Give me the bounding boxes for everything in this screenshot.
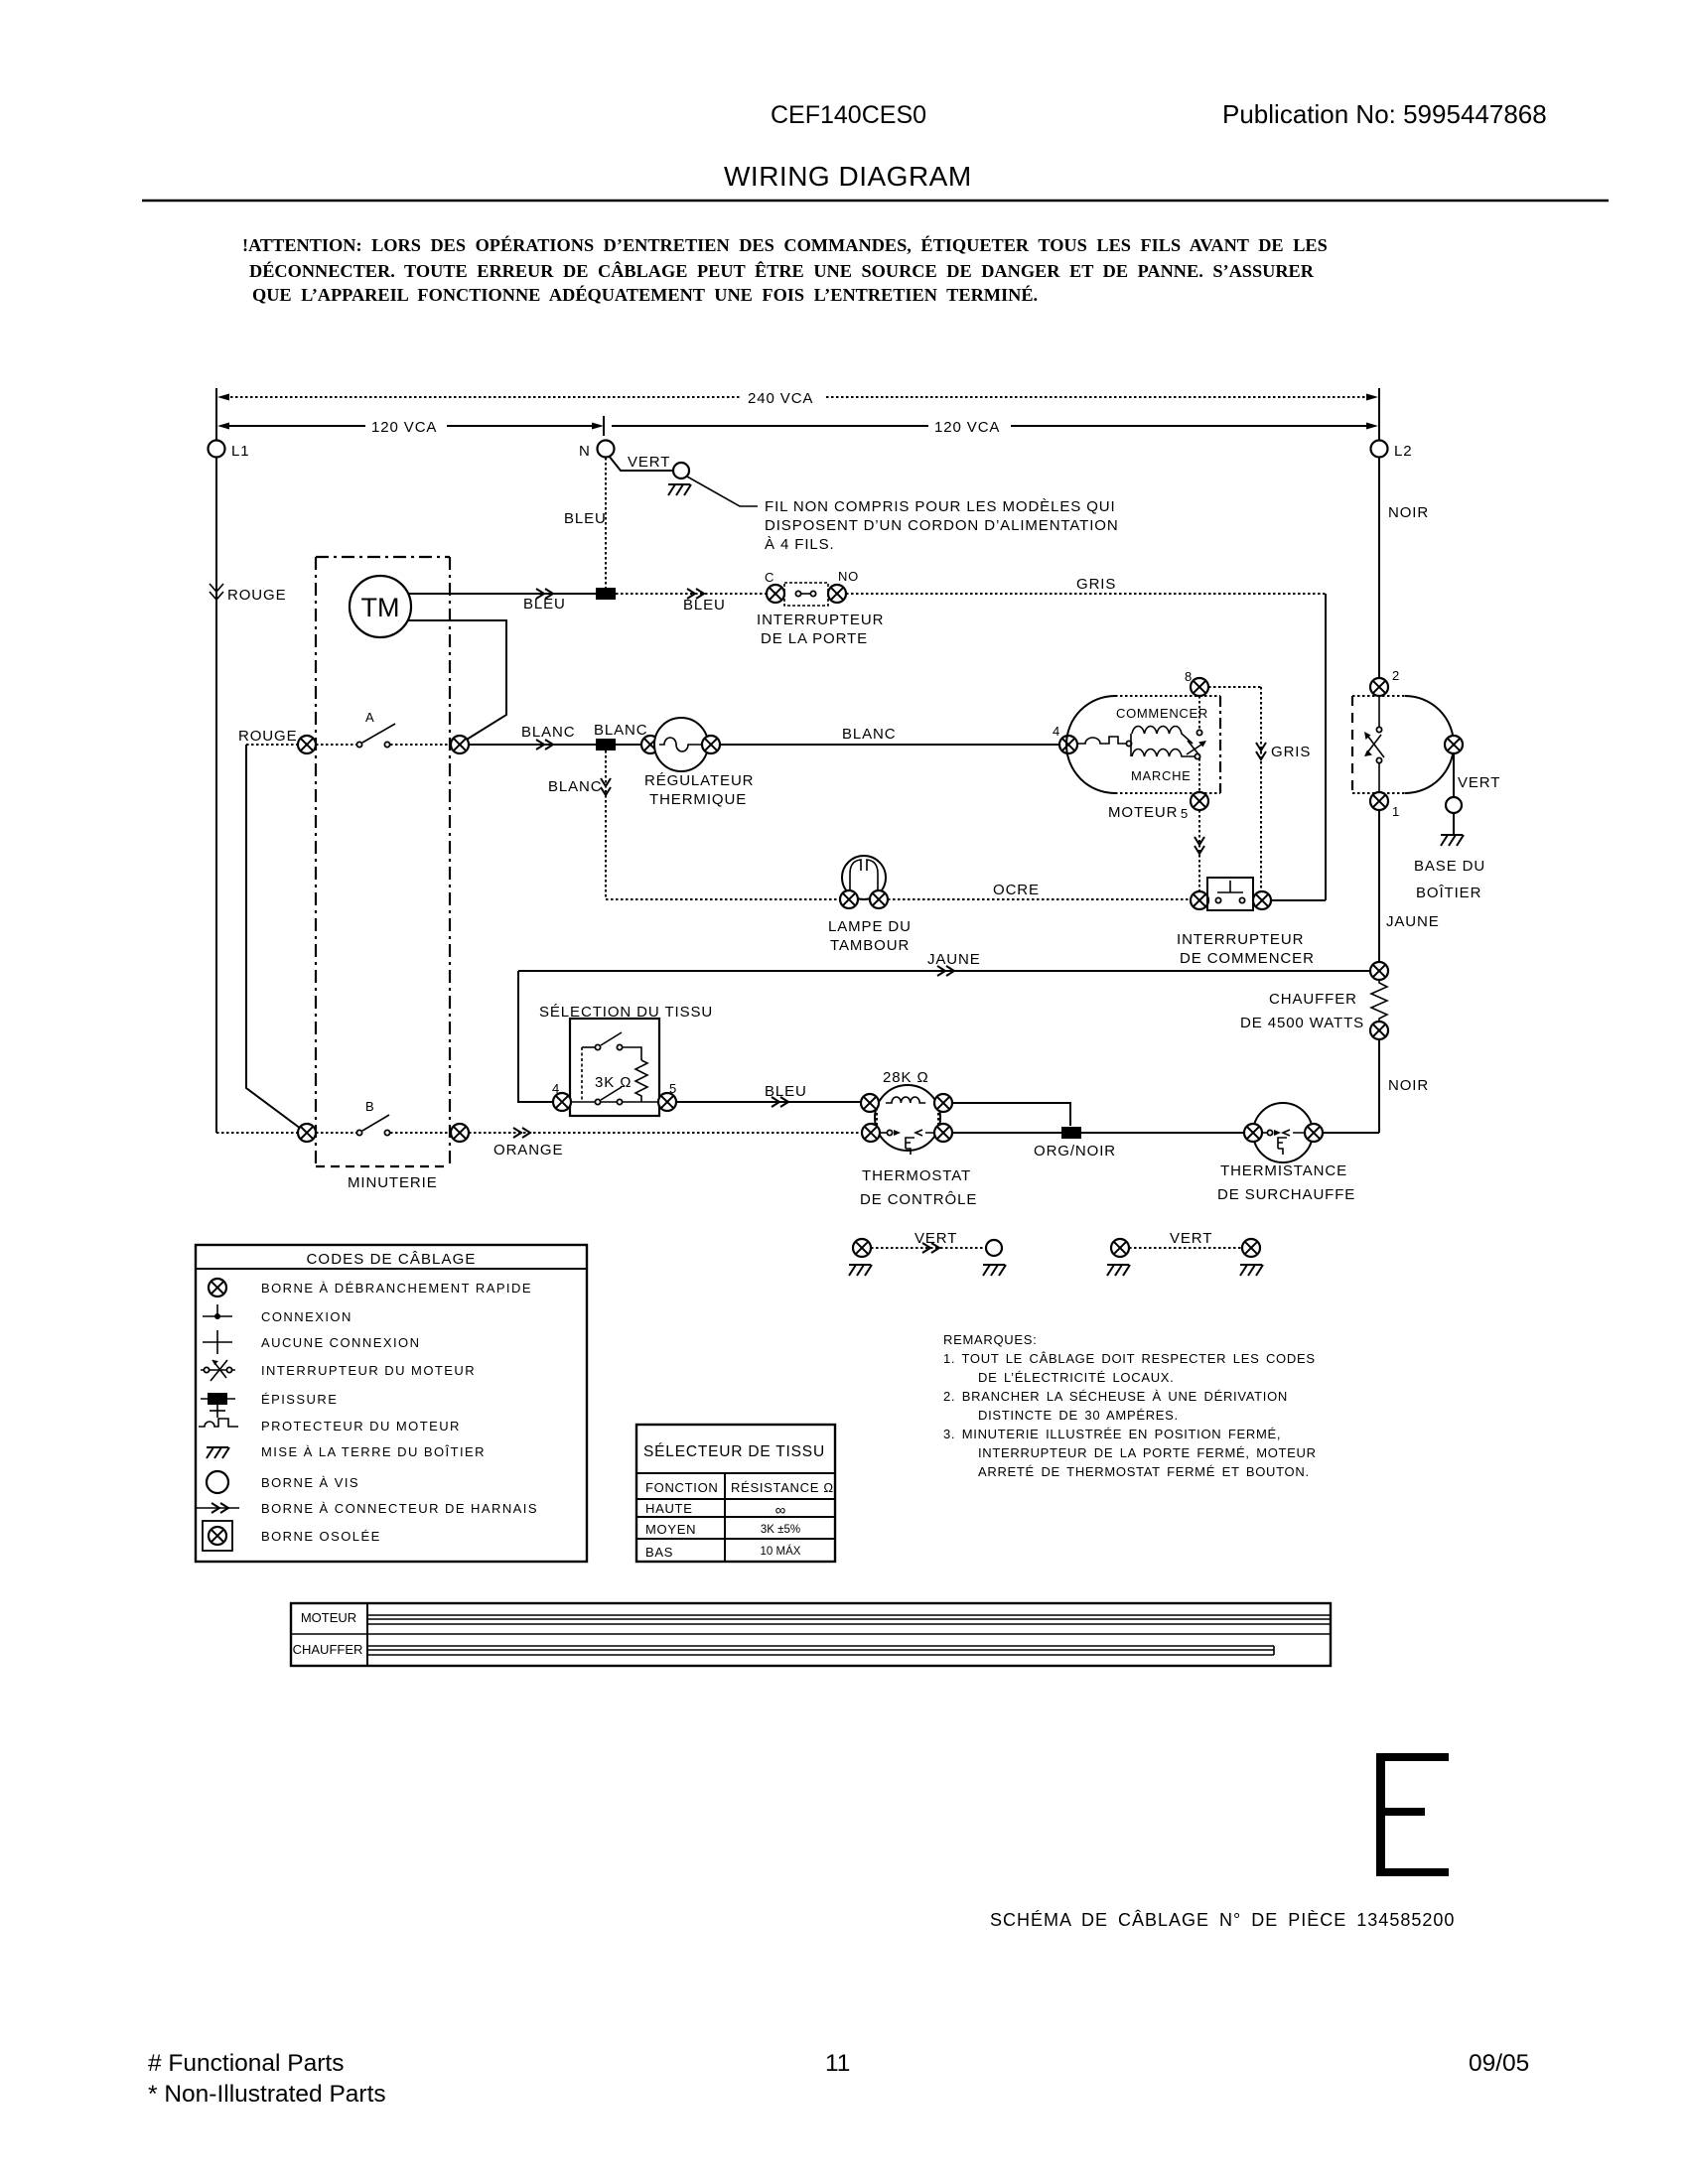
VERT lead to chassis xyxy=(1446,753,1500,835)
heater element CHAUFFER xyxy=(1240,980,1387,1031)
wire terminal 5 down to start switch xyxy=(1195,810,1204,891)
svg-text:BLEU: BLEU xyxy=(564,510,607,527)
svg-text:QUE L’APPAREIL FONCTIONNE ADÉQ: QUE L’APPAREIL FONCTIONNE ADÉQUATEMENT U… xyxy=(252,284,1038,305)
wire ORANGE to thermostat xyxy=(469,1128,862,1159)
svg-text:BASE DU: BASE DU xyxy=(1414,858,1485,875)
splice BLEU node xyxy=(596,588,616,600)
regulateur thermique xyxy=(616,718,754,808)
wire thermostat bottom right to splice xyxy=(952,1132,1061,1134)
wire BLEU selector to thermostat xyxy=(676,1083,861,1107)
svg-text:JAUNE: JAUNE xyxy=(927,951,981,968)
svg-text:TAMBOUR: TAMBOUR xyxy=(830,937,910,954)
svg-text:SÉLECTEUR DE TISSU: SÉLECTEUR DE TISSU xyxy=(643,1443,825,1460)
svg-text:OCRE: OCRE xyxy=(993,882,1040,898)
wire start switch to GRIS vertical xyxy=(1271,899,1326,901)
wire BLANC regulator to motor xyxy=(720,726,1059,745)
svg-text:BLANC: BLANC xyxy=(521,724,576,741)
title rule xyxy=(142,200,1609,203)
svg-text:BOÎTIER: BOÎTIER xyxy=(1416,885,1481,901)
svg-text:DISTINCTE DE 30 AMPÉRES.: DISTINCTE DE 30 AMPÉRES. xyxy=(978,1408,1179,1423)
terminal A left xyxy=(298,736,316,753)
svg-text:4: 4 xyxy=(552,1081,560,1096)
motor terminal 4 xyxy=(1053,724,1077,753)
ground group 2 left terminal xyxy=(1107,1239,1130,1276)
ground group 1 screw terminal xyxy=(983,1240,1006,1276)
svg-text:DE 4500 WATTS: DE 4500 WATTS xyxy=(1240,1015,1364,1031)
svg-text:!ATTENTION: LORS DES OPÉRATION: !ATTENTION: LORS DES OPÉRATIONS D’ENTRET… xyxy=(242,234,1328,255)
svg-text:DISPOSENT D’UN CORDON D’ALI: DISPOSENT D’UN CORDON D’ALIMENTATION xyxy=(765,517,1119,534)
svg-text:* Non-Illustrated Parts: * Non-Illustrated Parts xyxy=(148,2081,386,2108)
svg-text:GRIS: GRIS xyxy=(1076,576,1116,593)
svg-text:THERMOSTAT: THERMOSTAT xyxy=(862,1167,971,1184)
svg-text:ARRETÉ DE THERMOSTAT FERMÉ: ARRETÉ DE THERMOSTAT FERMÉ ET BOUTON. xyxy=(978,1464,1310,1479)
wire splice to thermistance xyxy=(1081,1132,1244,1134)
svg-text:DÉCONNECTER. TOUTE ERREUR DE C: DÉCONNECTER. TOUTE ERREUR DE CÂBLAGE PEU… xyxy=(249,260,1315,281)
svg-text:C: C xyxy=(765,570,774,585)
wire L1 vertical xyxy=(215,388,217,440)
svg-text:CEF140CES0: CEF140CES0 xyxy=(771,101,926,129)
wire thermostat top right to splice xyxy=(952,1103,1070,1126)
switch A xyxy=(316,710,451,748)
svg-text:A: A xyxy=(365,710,374,725)
svg-text:B: B xyxy=(365,1099,374,1114)
svg-text:MINUTERIE: MINUTERIE xyxy=(348,1174,438,1191)
svg-text:11: 11 xyxy=(825,2050,850,2077)
wire splice to door switch xyxy=(616,589,767,614)
terminal L2 xyxy=(1371,441,1413,461)
svg-text:BORNE À CONNECTEUR DE HARN: BORNE À CONNECTEUR DE HARNAIS xyxy=(261,1501,538,1516)
wire JAUNE from terminal 1 down xyxy=(1379,810,1440,962)
switch B in timer xyxy=(298,1099,469,1142)
main switch terminal 2 xyxy=(1370,668,1400,696)
120 VCA dimension line left xyxy=(217,416,604,436)
svg-text:Publication No: 5995447868: Publication No: 5995447868 xyxy=(1222,99,1547,129)
screw terminal on VERT xyxy=(673,463,689,478)
ground group 2 VERT wire xyxy=(1129,1230,1242,1248)
svg-text:120 VCA: 120 VCA xyxy=(371,419,437,436)
thermostat de controle xyxy=(860,1069,977,1208)
wire GRIS from terminal 8 xyxy=(1208,687,1311,891)
legend connexion xyxy=(203,1304,352,1324)
svg-text:# Functional Parts: # Functional Parts xyxy=(148,2050,344,2077)
svg-text:28K Ω: 28K Ω xyxy=(883,1069,929,1086)
svg-text:DE LA PORTE: DE LA PORTE xyxy=(761,630,868,647)
svg-text:JAUNE: JAUNE xyxy=(1386,913,1440,930)
svg-text:MOTEUR: MOTEUR xyxy=(301,1610,356,1625)
main switch terminal 1 xyxy=(1370,792,1400,819)
svg-text:SCHÉMA DE CÂBLAGE N° DE P: SCHÉMA DE CÂBLAGE N° DE PIÈCE 134585200 xyxy=(990,1910,1455,1930)
svg-text:2: 2 xyxy=(1392,668,1400,683)
wire ROUGE corner to terminal A xyxy=(238,728,298,745)
legend borne a vis xyxy=(207,1471,359,1493)
wire JAUNE left drop to selector xyxy=(518,971,554,1102)
svg-text:CODES DE CÂBLAGE: CODES DE CÂBLAGE xyxy=(307,1251,477,1268)
svg-text:5: 5 xyxy=(669,1081,677,1096)
legend quick disconnect xyxy=(209,1279,532,1297)
door switch INTERRUPTEUR DE LA PORTE xyxy=(757,569,884,647)
120 VCA dimension line right xyxy=(612,419,1378,436)
svg-text:RÉGULATEUR: RÉGULATEUR xyxy=(644,772,754,789)
wire TM to splice BLEU xyxy=(408,589,596,613)
svg-text:N: N xyxy=(579,443,591,460)
svg-text:REMARQUES:: REMARQUES: xyxy=(943,1332,1037,1347)
terminal A right xyxy=(451,736,469,753)
svg-text:BAS: BAS xyxy=(645,1545,673,1560)
svg-text:CHAUFFER: CHAUFFER xyxy=(1269,991,1357,1008)
ground group 1 VERT wire xyxy=(871,1230,986,1253)
svg-text:ROUGE: ROUGE xyxy=(238,728,298,745)
motor start winding COMMENCER xyxy=(1116,706,1208,744)
legend borne a connecteur de harnais xyxy=(197,1501,538,1516)
wire lamp branch horizontal xyxy=(606,898,840,900)
wire JAUNE horizontal xyxy=(518,951,1370,976)
main switch blade xyxy=(1364,696,1384,792)
svg-text:BLEU: BLEU xyxy=(683,597,726,614)
svg-text:L1: L1 xyxy=(231,443,250,460)
wire L1 down to row B xyxy=(216,458,298,1133)
svg-text:ORANGE: ORANGE xyxy=(493,1142,563,1159)
legend epissure xyxy=(201,1392,338,1418)
svg-text:240 VCA: 240 VCA xyxy=(748,390,813,407)
selector terminal 5 xyxy=(658,1081,677,1111)
svg-text:FONCTION: FONCTION xyxy=(645,1480,718,1495)
svg-text:NOIR: NOIR xyxy=(1388,1077,1429,1094)
svg-text:GRIS: GRIS xyxy=(1271,744,1311,760)
svg-text:3. MINUTERIE ILLUSTRÉE EN: 3. MINUTERIE ILLUSTRÉE EN POSITION FERMÉ… xyxy=(943,1427,1281,1441)
selector terminal 4 xyxy=(552,1081,571,1111)
warning paragraph xyxy=(242,234,1328,305)
callout leader line xyxy=(687,477,758,506)
wire OCRE lamp to start switch xyxy=(888,882,1191,899)
svg-text:BLANC: BLANC xyxy=(842,726,897,743)
svg-text:4: 4 xyxy=(1053,724,1060,739)
svg-text:3K ±5%: 3K ±5% xyxy=(761,1524,800,1536)
svg-text:09/05: 09/05 xyxy=(1469,2050,1529,2077)
svg-text:MARCHE: MARCHE xyxy=(1131,768,1192,783)
ground base du boitier xyxy=(1414,835,1485,901)
svg-text:VERT: VERT xyxy=(914,1230,957,1247)
svg-text:RÉSISTANCE Ω: RÉSISTANCE Ω xyxy=(731,1480,834,1495)
svg-text:MISE À LA TERRE DU BOÎTIE: MISE À LA TERRE DU BOÎTIER xyxy=(261,1444,486,1459)
motor MOTEUR body xyxy=(1066,696,1220,821)
wire ROUGE vertical down xyxy=(246,745,301,1129)
svg-text:ROUGE: ROUGE xyxy=(227,587,287,604)
heater bottom terminal xyxy=(1370,1022,1388,1039)
timer motor TM xyxy=(350,576,411,637)
svg-text:THERMISTANCE: THERMISTANCE xyxy=(1220,1162,1347,1179)
wire GRIS vertical down to start switch xyxy=(1325,594,1327,900)
svg-text:CONNEXION: CONNEXION xyxy=(261,1309,352,1324)
svg-text:ÉPISSURE: ÉPISSURE xyxy=(261,1392,338,1407)
svg-text:DE COMMENCER: DE COMMENCER xyxy=(1180,950,1315,967)
lampe du tambour xyxy=(828,856,912,954)
timing chart moteur bars xyxy=(368,1615,1331,1624)
svg-text:8: 8 xyxy=(1185,669,1193,684)
svg-text:LAMPE DU: LAMPE DU xyxy=(828,918,912,935)
svg-text:COMMENCER: COMMENCER xyxy=(1116,706,1208,721)
legend mise a la terre xyxy=(207,1444,486,1459)
timing chart chauffer bars xyxy=(368,1646,1274,1655)
terminal L1 xyxy=(209,441,250,461)
ground group 2 right terminal xyxy=(1240,1239,1263,1276)
svg-text:DE CONTRÔLE: DE CONTRÔLE xyxy=(860,1191,977,1208)
fabric selector box xyxy=(570,1019,659,1116)
svg-text:MOTEUR: MOTEUR xyxy=(1108,804,1178,821)
legend box CODES DE CABLAGE xyxy=(196,1245,587,1562)
terminal N xyxy=(579,441,615,461)
svg-text:AUCUNE CONNEXION: AUCUNE CONNEXION xyxy=(261,1335,420,1350)
svg-text:VERT: VERT xyxy=(1170,1230,1212,1247)
wire BLEU N down xyxy=(564,458,607,588)
revision letter E xyxy=(1376,1753,1449,1876)
svg-text:BLANC: BLANC xyxy=(594,722,648,739)
motor run winding MARCHE xyxy=(1131,750,1195,784)
svg-text:1. TOUT LE CÂBLAGE DOIT R: 1. TOUT LE CÂBLAGE DOIT RESPECTER LES CO… xyxy=(943,1351,1316,1366)
svg-text:VERT: VERT xyxy=(1458,774,1500,791)
motor terminal 5 xyxy=(1181,792,1208,821)
svg-text:INTERRUPTEUR DE LA PORTE F: INTERRUPTEUR DE LA PORTE FERMÉ, MOTEUR xyxy=(978,1445,1317,1460)
svg-text:TM: TM xyxy=(361,593,400,622)
svg-text:ORG/NOIR: ORG/NOIR xyxy=(1034,1143,1116,1160)
ROUGE wire marker on L1 xyxy=(210,584,287,604)
svg-text:BORNE OSOLÉE: BORNE OSOLÉE xyxy=(261,1529,381,1544)
note text 4-wire models xyxy=(765,498,1119,553)
ground below VERT screw xyxy=(668,484,691,495)
svg-text:FIL NON COMPRIS POUR LES: FIL NON COMPRIS POUR LES MODÈLES QUI xyxy=(765,498,1116,515)
svg-text:120 VCA: 120 VCA xyxy=(934,419,1000,436)
thermistance de surchauffe xyxy=(1217,1103,1355,1203)
motor winding bracket xyxy=(1126,734,1131,756)
svg-text:BORNE À VIS: BORNE À VIS xyxy=(261,1475,359,1490)
svg-text:INTERRUPTEUR: INTERRUPTEUR xyxy=(757,612,884,628)
legend interrupteur du moteur xyxy=(201,1360,476,1381)
svg-text:INTERRUPTEUR DU MOTEUR: INTERRUPTEUR DU MOTEUR xyxy=(261,1363,476,1378)
svg-text:DE SURCHAUFFE: DE SURCHAUFFE xyxy=(1217,1186,1355,1203)
selector table SELECTEUR DE TISSU xyxy=(636,1425,835,1562)
timer dashed box MINUTERIE xyxy=(316,557,450,1191)
selector internal circuit xyxy=(571,1032,658,1105)
svg-text:DE L’ÉLECTRICITÉ LOCAUX.: DE L’ÉLECTRICITÉ LOCAUX. xyxy=(978,1370,1174,1385)
main switch body xyxy=(1352,696,1454,793)
heater top terminal xyxy=(1370,962,1388,980)
svg-text:NO: NO xyxy=(838,569,859,584)
svg-text:NOIR: NOIR xyxy=(1388,504,1429,521)
wire NOIR heater to thermistor xyxy=(1323,1039,1429,1133)
svg-text:MOYEN: MOYEN xyxy=(645,1522,696,1537)
motor centrifugal switch xyxy=(1187,730,1206,758)
motor run lead down to 5 xyxy=(1198,758,1200,792)
svg-text:2. BRANCHER LA SÉCHEUSE À: 2. BRANCHER LA SÉCHEUSE À UNE DÉRIVATION xyxy=(943,1389,1288,1404)
wire GRIS door switch to right xyxy=(846,576,1326,594)
240 VCA dimension line xyxy=(217,390,1378,407)
svg-text:HAUTE: HAUTE xyxy=(645,1501,693,1516)
svg-text:THERMIQUE: THERMIQUE xyxy=(649,791,747,808)
legend borne osolee xyxy=(203,1521,381,1551)
motor protector on lead xyxy=(1077,737,1129,744)
wire BLANC splice down to lamp xyxy=(548,751,611,899)
wire TM lower output to switch A xyxy=(408,620,506,743)
svg-text:5: 5 xyxy=(1181,806,1189,821)
timing chart box xyxy=(291,1603,1331,1666)
svg-text:CHAUFFER: CHAUFFER xyxy=(293,1642,363,1657)
main switch right terminal xyxy=(1445,736,1463,753)
splice ORG/NOIR xyxy=(1034,1127,1116,1160)
svg-text:BLANC: BLANC xyxy=(548,778,603,795)
splice BLANC node xyxy=(594,722,648,751)
svg-text:INTERRUPTEUR: INTERRUPTEUR xyxy=(1177,931,1304,948)
svg-text:WIRING DIAGRAM: WIRING DIAGRAM xyxy=(724,161,972,192)
remarques notes xyxy=(943,1332,1317,1479)
svg-text:10 MÁX: 10 MÁX xyxy=(761,1545,801,1558)
svg-text:1: 1 xyxy=(1392,804,1400,819)
wire L2 top stub xyxy=(1378,388,1380,440)
wire BLANC A to splice xyxy=(469,724,596,750)
svg-text:BLEU: BLEU xyxy=(765,1083,807,1100)
start switch INTERRUPTEUR DE COMMENCER xyxy=(1177,878,1315,967)
wire VERT from N xyxy=(609,454,673,471)
ground group 1 left terminal xyxy=(849,1239,872,1276)
svg-text:L2: L2 xyxy=(1394,443,1413,460)
svg-text:BORNE À DÉBRANCHEMENT RAPID: BORNE À DÉBRANCHEMENT RAPIDE xyxy=(261,1281,532,1296)
svg-text:PROTECTEUR DU MOTEUR: PROTECTEUR DU MOTEUR xyxy=(261,1419,461,1433)
legend protecteur du moteur xyxy=(199,1419,461,1433)
legend aucune connexion xyxy=(203,1330,420,1354)
svg-text:À 4 FILS.: À 4 FILS. xyxy=(765,536,835,553)
svg-text:∞: ∞ xyxy=(775,1502,786,1519)
svg-text:BLEU: BLEU xyxy=(523,596,566,613)
wire NOIR L2 down xyxy=(1379,458,1429,678)
svg-text:3K Ω: 3K Ω xyxy=(595,1074,632,1091)
svg-text:VERT: VERT xyxy=(628,454,670,471)
motor terminal 8 xyxy=(1185,669,1208,729)
